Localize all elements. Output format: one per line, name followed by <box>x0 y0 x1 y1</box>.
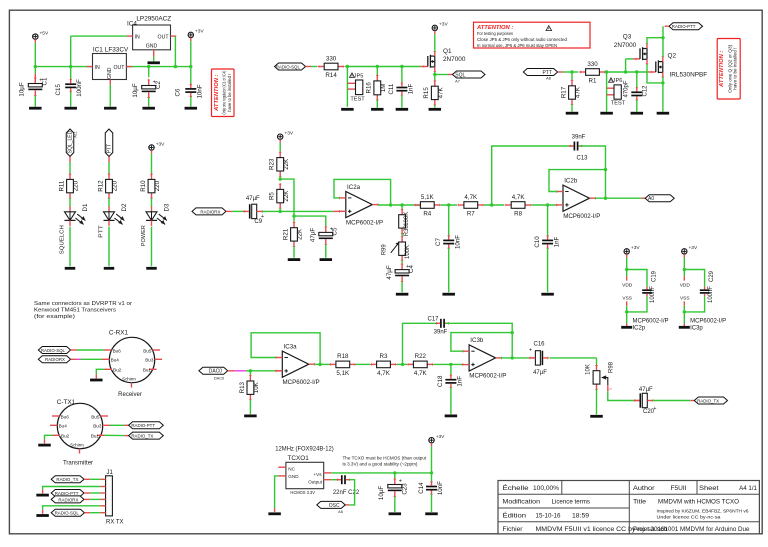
svg-text:IRL530NPBF: IRL530NPBF <box>670 72 708 79</box>
svg-text:470pF: 470pF <box>623 80 629 97</box>
svg-text:47µF: 47µF <box>310 228 317 242</box>
svg-text:4,7K: 4,7K <box>377 370 391 377</box>
svg-text:Only one regulator (IC1 or IC4: Only one regulator (IC1 or IC4) <box>222 70 227 114</box>
svg-text:R7: R7 <box>467 211 475 218</box>
svg-text:have to be installed !: have to be installed ! <box>227 74 232 112</box>
svg-text:have to be installed !: have to be installed ! <box>733 48 738 90</box>
svg-text:RADIORX: RADIORX <box>45 357 65 362</box>
svg-text:330: 330 <box>326 55 337 62</box>
svg-text:C18: C18 <box>437 375 444 387</box>
svg-text:Projet: Projet <box>633 526 649 533</box>
svg-text:5,1K: 5,1K <box>421 194 435 201</box>
svg-text:GND: GND <box>146 44 158 50</box>
svg-text:Édition: Édition <box>503 512 527 519</box>
svg-text:TEST: TEST <box>611 101 626 107</box>
svg-text:1nF: 1nF <box>553 236 560 247</box>
svg-text:220: 220 <box>154 180 161 191</box>
svg-text:R23: R23 <box>269 158 276 170</box>
svg-text:VDD: VDD <box>680 282 691 288</box>
svg-text:C29: C29 <box>709 270 715 282</box>
svg-text:Under licence CC by-nc-sa: Under licence CC by-nc-sa <box>657 514 722 519</box>
svg-text:39nF: 39nF <box>572 134 586 140</box>
svg-text:LP2950ACZ: LP2950ACZ <box>136 15 171 22</box>
svg-text:R8: R8 <box>514 211 522 218</box>
svg-text:+3V: +3V <box>631 245 640 251</box>
svg-text:Schirm: Schirm <box>70 443 84 448</box>
svg-text:10nF: 10nF <box>437 481 444 495</box>
svg-text:22K: 22K <box>283 190 290 202</box>
svg-text:IC3a: IC3a <box>284 344 298 351</box>
svg-text:47K: 47K <box>575 86 582 98</box>
svg-text:47µF: 47µF <box>246 196 260 202</box>
svg-text:RADIO-SQL: RADIO-SQL <box>276 64 301 69</box>
svg-text:R5: R5 <box>269 192 276 200</box>
svg-text:RADIO_TX: RADIO_TX <box>56 477 78 482</box>
svg-text:+: + <box>529 348 532 354</box>
svg-text:SQUELCH: SQUELCH <box>60 225 66 254</box>
svg-text:10K: 10K <box>586 364 592 375</box>
svg-text:RX TX: RX TX <box>106 519 124 525</box>
svg-text:1nF: 1nF <box>457 376 464 387</box>
svg-text:Q2: Q2 <box>668 53 677 60</box>
svg-text:R14: R14 <box>325 72 337 79</box>
svg-text:4,7K: 4,7K <box>464 194 478 201</box>
svg-text:+: + <box>653 406 656 412</box>
svg-text:RADIO-SQL: RADIO-SQL <box>41 348 66 353</box>
svg-text:POWER: POWER <box>141 225 147 246</box>
svg-text:47µF: 47µF <box>533 370 547 376</box>
svg-text:Bu1: Bu1 <box>91 434 100 439</box>
svg-text:ATTENTION :: ATTENTION : <box>476 25 513 31</box>
svg-text:C14: C14 <box>418 482 425 494</box>
svg-text:C17: C17 <box>427 317 439 323</box>
svg-text:10µF: 10µF <box>132 83 139 97</box>
svg-text:J1: J1 <box>107 470 114 476</box>
svg-text:A7: A7 <box>455 79 460 83</box>
svg-text:Bu6: Bu6 <box>61 414 70 419</box>
svg-text:HCMOS 3.3V: HCMOS 3.3V <box>290 490 315 495</box>
svg-text:RADIO-PTT: RADIO-PTT <box>672 24 696 29</box>
svg-text:220: 220 <box>112 180 119 191</box>
svg-text:10µF: 10µF <box>378 486 385 500</box>
svg-text:Sheet: Sheet <box>699 485 719 492</box>
svg-text:(for example): (for example) <box>34 314 75 320</box>
svg-text:MCP6002-I/P: MCP6002-I/P <box>633 318 669 324</box>
svg-text:The TCXO must be HCMOS (than o: The TCXO must be HCMOS (than output <box>343 455 427 460</box>
svg-text:18:59: 18:59 <box>572 512 590 519</box>
svg-text:D3: D3 <box>163 203 170 211</box>
svg-text:R1: R1 <box>589 78 597 85</box>
svg-text:MCP6002-I/P: MCP6002-I/P <box>563 213 600 220</box>
svg-text:R4: R4 <box>423 211 431 218</box>
svg-text:MCP6002-I/P: MCP6002-I/P <box>690 318 726 324</box>
svg-text:R22: R22 <box>415 353 427 360</box>
svg-text:C1: C1 <box>41 77 48 85</box>
svg-text:MMDVM with HCMOS TCXO: MMDVM with HCMOS TCXO <box>658 499 739 506</box>
svg-text:Échelle: Échelle <box>503 485 530 492</box>
svg-text:+3V: +3V <box>689 245 698 251</box>
svg-text:JP6: JP6 <box>613 78 623 84</box>
svg-text:Q3: Q3 <box>623 34 632 41</box>
svg-text:In normal use, JP5 & JP6 must: In normal use, JP5 & JP6 must stay OPEN <box>477 43 557 48</box>
svg-text:2N7000: 2N7000 <box>443 56 466 63</box>
svg-text:PTT: PTT <box>543 70 552 76</box>
svg-text:R18: R18 <box>337 353 349 360</box>
svg-text:5,1K: 5,1K <box>336 370 350 377</box>
svg-text:47µF: 47µF <box>639 387 653 393</box>
svg-text:Only one Q (Q2 or Q3): Only one Q (Q2 or Q3) <box>727 44 732 93</box>
svg-text:R99: R99 <box>381 244 387 256</box>
svg-text:+3V: +3V <box>156 141 165 147</box>
svg-text:Transmitter: Transmitter <box>63 460 93 466</box>
svg-text:PTT: PTT <box>107 144 113 153</box>
svg-text:NC: NC <box>288 466 295 471</box>
svg-text:Fichier: Fichier <box>503 526 523 533</box>
svg-text:LF33CV: LF33CV <box>105 47 129 54</box>
svg-text:100nF: 100nF <box>76 79 83 97</box>
svg-text:R12: R12 <box>97 180 104 192</box>
svg-text:A0: A0 <box>648 196 654 202</box>
svg-text:C11: C11 <box>388 83 395 94</box>
svg-text:+Vs: +Vs <box>313 472 322 477</box>
svg-text:Bu2: Bu2 <box>113 368 122 373</box>
svg-text:100nF: 100nF <box>650 286 656 303</box>
svg-text:Inspired by KI6ZUM, EB4FBZ, SP: Inspired by KI6ZUM, EB4FBZ, SP6NTH v6 <box>657 508 750 513</box>
svg-text:Bu6: Bu6 <box>113 348 122 353</box>
svg-text:330: 330 <box>587 61 598 68</box>
svg-text:VSS: VSS <box>622 295 632 301</box>
svg-text:C23: C23 <box>402 483 409 495</box>
svg-text:+3V: +3V <box>284 131 293 137</box>
svg-text:20161001 MMDVM for Arduino Du: 20161001 MMDVM for Arduino Due <box>651 526 751 533</box>
svg-text:RADIORX: RADIORX <box>200 209 220 214</box>
svg-text:IC3b: IC3b <box>470 337 484 344</box>
svg-text:+3V: +3V <box>195 29 204 35</box>
svg-text:39nF: 39nF <box>434 330 448 336</box>
svg-text:MCP6002-I/P: MCP6002-I/P <box>283 379 320 386</box>
svg-text:Bu4: Bu4 <box>59 424 68 429</box>
svg-text:RADIO-SQL: RADIO-SQL <box>55 511 80 516</box>
svg-text:MCP6002-I/P: MCP6002-I/P <box>469 373 506 380</box>
svg-text:R15: R15 <box>423 87 430 99</box>
svg-text:Receiver: Receiver <box>118 392 142 398</box>
svg-text:Bu5: Bu5 <box>91 414 100 419</box>
svg-text:Output: Output <box>308 480 323 485</box>
svg-text:47K: 47K <box>437 87 444 99</box>
svg-text:OUT: OUT <box>113 65 125 71</box>
svg-text:Kenwood TM451 Transceivers: Kenwood TM451 Transceivers <box>34 307 116 313</box>
svg-text:Close JP5 & JP6 only without r: Close JP5 & JP6 only without radio conne… <box>477 37 567 42</box>
svg-text:C6: C6 <box>174 88 181 96</box>
svg-text:ATTENTION :: ATTENTION : <box>214 74 220 111</box>
svg-text:RADIO-PTT: RADIO-PTT <box>131 423 155 428</box>
svg-text:C10: C10 <box>534 236 541 248</box>
svg-text:R11: R11 <box>58 180 65 191</box>
svg-text:+5V: +5V <box>40 30 49 36</box>
svg-text:Licence terms: Licence terms <box>552 499 591 506</box>
svg-text:RADIO_TX: RADIO_TX <box>697 398 719 403</box>
svg-text:GND: GND <box>107 67 113 79</box>
svg-text:R98: R98 <box>608 361 614 373</box>
svg-text:RADIO-PTT: RADIO-PTT <box>55 491 79 496</box>
svg-text:C2: C2 <box>155 80 162 88</box>
svg-text:is 3.3V) and a good stability: is 3.3V) and a good stability (~2ppm) <box>343 462 418 467</box>
svg-text:100nF: 100nF <box>708 286 714 303</box>
svg-text:Bu3: Bu3 <box>93 424 102 429</box>
svg-text:RADIO_TX: RADIO_TX <box>131 434 153 439</box>
svg-text:Title: Title <box>633 499 647 506</box>
svg-text:DAC0: DAC0 <box>214 376 224 380</box>
svg-text:Modification: Modification <box>503 499 541 506</box>
svg-text:IC3p: IC3p <box>690 326 703 332</box>
svg-text:Bu5: Bu5 <box>143 348 152 353</box>
svg-text:100K: 100K <box>405 245 411 259</box>
svg-text:C-RX1: C-RX1 <box>109 330 129 337</box>
svg-text:Schirm: Schirm <box>122 377 136 382</box>
svg-text:A6: A6 <box>338 510 343 514</box>
svg-text:JP5: JP5 <box>354 73 364 79</box>
svg-text:4,7K: 4,7K <box>414 370 428 377</box>
svg-text:R17: R17 <box>560 86 567 98</box>
svg-text:1nF: 1nF <box>408 84 415 95</box>
svg-text:IC2b: IC2b <box>564 178 578 185</box>
svg-text:Q1: Q1 <box>443 48 452 55</box>
svg-text:OUT: OUT <box>158 34 170 40</box>
svg-text:VDD: VDD <box>622 282 633 288</box>
svg-text:C13: C13 <box>576 156 588 162</box>
svg-text:Author: Author <box>633 485 655 492</box>
svg-text:F5UII: F5UII <box>671 485 687 492</box>
svg-text:IN: IN <box>95 65 100 71</box>
svg-text:R21: R21 <box>282 228 289 240</box>
svg-text:+3V: +3V <box>439 22 448 28</box>
svg-text:12MHz (FOX924B-12): 12MHz (FOX924B-12) <box>275 447 334 453</box>
svg-text:TEST: TEST <box>350 96 365 102</box>
svg-text:15-10-16: 15-10-16 <box>536 512 562 519</box>
svg-text:RADIORX: RADIORX <box>58 497 78 502</box>
svg-text:R3: R3 <box>380 353 388 360</box>
svg-text:VSS: VSS <box>680 295 690 301</box>
svg-text:C12: C12 <box>642 85 648 97</box>
svg-text:A11: A11 <box>73 131 77 137</box>
svg-text:SQL: SQL <box>455 72 465 78</box>
svg-text:C7: C7 <box>435 237 442 245</box>
svg-text:DAC0: DAC0 <box>209 369 223 375</box>
svg-text:For testing purposes: For testing purposes <box>477 31 514 36</box>
svg-text:TCXO1: TCXO1 <box>288 455 310 462</box>
svg-text:+3V: +3V <box>436 434 445 440</box>
svg-text:Bu4: Bu4 <box>111 358 120 363</box>
svg-text:PTT: PTT <box>99 225 105 238</box>
svg-text:C16: C16 <box>533 341 545 347</box>
svg-text:1M: 1M <box>380 84 387 93</box>
svg-text:ATTENTION :: ATTENTION : <box>719 51 725 88</box>
svg-text:220: 220 <box>73 180 80 191</box>
svg-text:2N7000: 2N7000 <box>614 42 637 49</box>
svg-text:MCP6002-I/P: MCP6002-I/P <box>346 219 383 226</box>
svg-text:C5: C5 <box>332 227 339 235</box>
svg-text:OSC: OSC <box>329 503 340 509</box>
svg-text:D2: D2 <box>121 203 128 211</box>
svg-text:10K: 10K <box>253 381 260 393</box>
svg-text:R13: R13 <box>239 381 246 393</box>
svg-text:22K: 22K <box>283 158 290 170</box>
svg-text:10µF: 10µF <box>19 82 26 96</box>
svg-text:4,7K: 4,7K <box>512 194 526 201</box>
svg-text:22nF C22: 22nF C22 <box>333 490 360 496</box>
svg-text:R10: R10 <box>140 180 147 192</box>
svg-text:IC2p: IC2p <box>633 326 646 332</box>
svg-text:10nF: 10nF <box>454 235 461 249</box>
svg-text:Bu2: Bu2 <box>61 434 70 439</box>
svg-text:A4 1/1: A4 1/1 <box>739 485 757 492</box>
svg-text:C-TX1: C-TX1 <box>57 399 76 406</box>
svg-text:Same connectors as DVRPTR v1 o: Same connectors as DVRPTR v1 or <box>34 301 132 307</box>
svg-text:100K: 100K <box>404 212 410 226</box>
svg-text:IN: IN <box>135 34 140 40</box>
svg-text:R16: R16 <box>366 82 373 94</box>
svg-text:10nF: 10nF <box>196 84 203 98</box>
svg-text:Bu1: Bu1 <box>143 368 152 373</box>
svg-text:C4: C4 <box>408 264 415 272</box>
svg-text:100,00%: 100,00% <box>533 485 560 492</box>
svg-text:IC2a: IC2a <box>347 184 361 191</box>
svg-text:C19: C19 <box>652 270 658 282</box>
svg-text:Bu3: Bu3 <box>145 358 154 363</box>
svg-text:IC1: IC1 <box>93 47 103 54</box>
svg-text:A8: A8 <box>546 77 551 81</box>
svg-text:D1: D1 <box>82 203 89 211</box>
svg-text:47µF: 47µF <box>386 265 393 279</box>
svg-text:+: + <box>261 214 264 220</box>
svg-text:C15: C15 <box>55 84 62 96</box>
svg-text:GND: GND <box>288 474 299 479</box>
svg-text:22K: 22K <box>297 228 304 240</box>
